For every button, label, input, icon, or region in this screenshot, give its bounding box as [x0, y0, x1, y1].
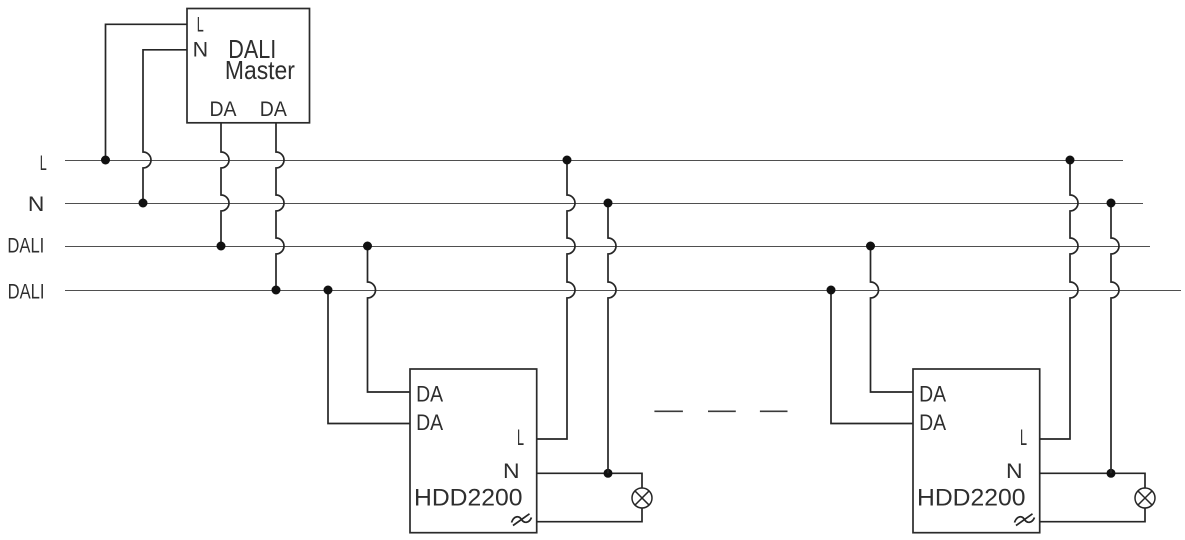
bus line N	[65, 203, 1143, 205]
wire U1 L pin to L bus	[106, 24, 188, 160]
svg-text:DALI: DALI	[7, 234, 44, 258]
svg-text:L: L	[517, 425, 524, 450]
junction U1-N on N bus	[139, 199, 148, 208]
svg-text:L: L	[40, 151, 47, 175]
wire DALI bus 4 to U2 DA2	[328, 290, 410, 424]
junction U3-DA1 on DALI bus 3	[866, 242, 875, 251]
continuation dashes	[654, 410, 787, 412]
DALI Master U1 box	[187, 9, 310, 123]
HDD2200 U3 box	[913, 369, 1040, 533]
bus line DALI (line 4)	[65, 290, 1181, 292]
svg-text:DA: DA	[416, 410, 443, 435]
wire U2 L pin to L bus (hops over N, DALI 3, DALI 4)	[537, 160, 575, 439]
wire DALI bus 3 to U3 DA1 (hop over DALI 4)	[871, 246, 914, 392]
svg-text:N: N	[193, 38, 209, 61]
svg-text:N: N	[503, 459, 520, 483]
svg-text:DALI: DALI	[8, 280, 45, 304]
junction U3-DA2 on DALI bus 4	[827, 286, 836, 295]
junction U3-N on N bus	[1107, 199, 1116, 208]
svg-text:N: N	[1006, 459, 1023, 483]
junction U2-DA2 on DALI bus 4	[324, 286, 333, 295]
wire U3 N pin to lamp E2	[1040, 473, 1145, 488]
junction U2-N branch	[604, 469, 613, 478]
bus line DALI (line 3)	[65, 246, 1150, 248]
svg-text:DA: DA	[260, 97, 288, 121]
wire U3 N branch to N bus (hops over DALI 3, DALI 4)	[1111, 203, 1119, 473]
wire U1 N pin to N bus (hop over L)	[143, 50, 187, 203]
wire lamp E2 to U3 dimmed output	[1040, 508, 1145, 522]
bus line L	[65, 160, 1123, 162]
svg-text:DA: DA	[919, 410, 946, 435]
svg-text:DA: DA	[919, 382, 946, 407]
svg-text:L: L	[1020, 425, 1027, 450]
junction U2-L on L bus	[563, 156, 572, 165]
junction U2-N on N bus	[604, 199, 613, 208]
svg-text:HDD2200: HDD2200	[917, 484, 1026, 511]
junction U1-DA2 on DALI bus 4	[272, 286, 281, 295]
junction U1-L on L bus	[101, 156, 110, 165]
junction U1-DA1 on DALI bus 3	[217, 242, 226, 251]
svg-text:N: N	[28, 192, 45, 216]
HDD2200 U2 box	[410, 369, 537, 533]
wire lamp E1 to U2 dimmed output	[537, 508, 642, 522]
wire U2 N pin to lamp E1	[537, 473, 642, 488]
junction U3-N branch	[1107, 469, 1116, 478]
wire U1 DA2 to DALI bus 4 (hops over L, N, DALI 3)	[276, 123, 284, 290]
svg-text:DA: DA	[416, 382, 443, 407]
svg-text:Master: Master	[225, 57, 295, 85]
junction U2-DA1 on DALI bus 3	[363, 242, 372, 251]
junction U3-L on L bus	[1066, 156, 1075, 165]
wire U1 DA1 to DALI bus 3 (hops over L and N)	[221, 123, 229, 246]
wire U2 N branch to N bus (hops over DALI 3, DALI 4)	[608, 203, 616, 473]
lamp E1	[632, 488, 652, 508]
svg-text:L: L	[197, 13, 204, 36]
wire DALI bus 4 to U3 DA2	[831, 290, 913, 424]
svg-text:HDD2200: HDD2200	[414, 484, 523, 511]
U3 dimmed-output symbol	[1015, 514, 1035, 526]
wire DALI bus 3 to U2 DA1 (hop over DALI 4)	[368, 246, 411, 392]
U1 name DALI Master	[225, 36, 295, 85]
lamp E2	[1135, 488, 1155, 508]
wire U3 L pin to L bus (hops over N, DALI 3, DALI 4)	[1040, 160, 1078, 439]
svg-text:DA: DA	[210, 97, 238, 121]
U2 dimmed-output symbol	[512, 514, 532, 526]
